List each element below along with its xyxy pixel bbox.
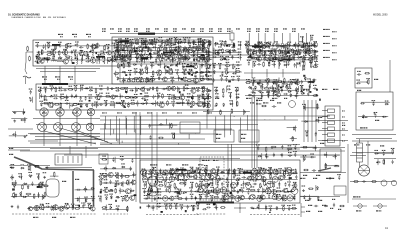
value label	[227, 31, 231, 32]
transistor Q28	[192, 78, 198, 83]
transistor Q27	[161, 77, 167, 82]
inductor L20	[143, 58, 149, 61]
value label	[287, 175, 291, 176]
diode D104	[38, 183, 40, 187]
wire	[226, 63, 228, 69]
wire	[146, 68, 148, 74]
node N181	[235, 175, 236, 176]
wire	[121, 141, 123, 143]
value label	[199, 181, 203, 182]
wire	[11, 118, 27, 120]
wire	[233, 42, 235, 48]
value label	[290, 79, 294, 80]
value label	[263, 179, 267, 180]
value label	[131, 100, 135, 101]
value label	[232, 187, 236, 188]
capacitor C390	[295, 175, 297, 179]
value label	[98, 195, 102, 196]
wire	[230, 93, 232, 99]
value label	[226, 182, 230, 183]
wire	[115, 71, 117, 77]
wire	[42, 102, 209, 104]
capacitor C269	[288, 43, 290, 47]
value label	[274, 31, 278, 32]
value label	[342, 125, 345, 127]
value label	[120, 54, 124, 55]
capacitor C348	[18, 176, 22, 178]
wire	[322, 116, 328, 118]
resistor R151	[158, 47, 160, 53]
capacitor C202	[185, 87, 189, 89]
node N154	[366, 82, 367, 83]
wire	[215, 88, 217, 94]
wire	[268, 89, 270, 95]
wire	[258, 33, 260, 44]
node N199	[157, 191, 158, 192]
value label	[374, 112, 378, 113]
capacitor C386	[236, 177, 240, 179]
node N192	[211, 185, 212, 186]
node N119	[262, 86, 263, 87]
wire	[20, 150, 345, 152]
wire	[37, 51, 126, 53]
value label	[147, 112, 152, 114]
transistor Q6	[78, 52, 83, 56]
transistor Q70	[130, 180, 136, 185]
transistor Q36	[184, 56, 190, 61]
diode D18	[122, 79, 126, 81]
wire	[45, 44, 47, 50]
resistor R295	[174, 183, 176, 189]
value label	[134, 94, 138, 95]
node N69	[197, 89, 198, 90]
capacitor C357	[122, 174, 124, 178]
wire	[307, 100, 309, 142]
capacitor C319	[288, 57, 290, 61]
capacitor C206	[53, 97, 57, 99]
tuning coil can	[38, 123, 47, 132]
capacitor C153	[134, 71, 138, 73]
capacitor C376	[238, 170, 240, 174]
value label	[253, 168, 257, 169]
diode D75	[303, 52, 307, 54]
wire	[212, 188, 214, 194]
resistor R216	[267, 50, 273, 52]
wire	[114, 50, 207, 52]
transformer T6	[260, 169, 266, 175]
wire	[247, 59, 315, 61]
node N204	[286, 188, 287, 189]
wire	[142, 169, 144, 175]
capacitor C191	[63, 89, 67, 91]
capacitor C392	[149, 182, 151, 186]
wire	[158, 54, 160, 60]
wire	[303, 100, 305, 142]
wire	[259, 48, 261, 54]
capacitor C323	[229, 50, 231, 54]
wire	[256, 174, 258, 180]
wire	[15, 131, 17, 137]
value label	[87, 112, 92, 114]
value label	[263, 102, 268, 104]
value label	[100, 173, 104, 174]
resistor R175	[171, 97, 177, 99]
wire	[180, 57, 182, 63]
wire	[74, 66, 76, 84]
capacitor C140	[186, 57, 190, 59]
resistor R229	[269, 87, 275, 89]
value label	[100, 50, 104, 51]
capacitor C402	[288, 183, 290, 187]
capacitor C264	[221, 77, 223, 81]
node N4	[38, 52, 39, 53]
value label	[79, 100, 83, 101]
value label	[177, 39, 181, 40]
transistor Q12	[110, 57, 116, 62]
node N123	[268, 95, 269, 96]
diode D46	[203, 57, 205, 61]
capacitor C292	[301, 80, 303, 84]
resistor R156	[173, 54, 175, 60]
value label	[105, 194, 109, 195]
value label	[362, 117, 367, 119]
transistor Q75	[174, 168, 179, 172]
wire	[139, 112, 141, 202]
node N130	[275, 52, 276, 53]
value label	[63, 49, 67, 50]
value label	[192, 51, 196, 52]
wire	[245, 95, 318, 97]
diode D9	[119, 54, 123, 56]
diode D83	[296, 90, 298, 94]
value label	[293, 187, 297, 188]
transistor Q34	[160, 54, 166, 59]
diode D92	[223, 103, 225, 107]
capacitor C207	[65, 97, 69, 99]
capacitor C265	[225, 77, 227, 81]
value label	[266, 91, 270, 92]
resistor R116	[158, 40, 164, 42]
value label	[99, 85, 103, 86]
diode D63	[290, 82, 294, 84]
resistor R130	[177, 51, 183, 53]
transistor Q18	[126, 56, 131, 60]
node N128	[270, 43, 271, 44]
resistor R225	[245, 82, 251, 84]
capacitor C242	[159, 123, 163, 125]
tuning coil can	[72, 123, 81, 132]
value label	[139, 61, 143, 62]
section label bar	[186, 66, 194, 68]
wire	[45, 87, 47, 93]
wire	[156, 175, 158, 181]
resistor R195	[29, 56, 31, 62]
transistor Q47	[158, 103, 164, 108]
wire	[272, 56, 274, 62]
value label	[301, 56, 305, 57]
transistor Q9	[39, 59, 44, 63]
node N188	[170, 185, 171, 186]
wire	[64, 154, 340, 156]
value label	[247, 31, 251, 32]
value label	[140, 47, 144, 48]
diode D93	[229, 103, 233, 105]
node N95	[227, 51, 228, 52]
transistor Q86	[260, 177, 267, 182]
value label	[68, 43, 72, 44]
capacitor C247	[225, 40, 227, 44]
value label	[179, 173, 183, 174]
wire	[75, 189, 95, 191]
diode D16	[200, 72, 204, 74]
capacitor C102	[59, 43, 61, 47]
terminal 5	[328, 133, 335, 136]
wire	[215, 117, 217, 143]
value label	[323, 29, 330, 31]
wire	[169, 123, 171, 129]
value label	[70, 79, 73, 80]
resistor R176	[175, 98, 181, 100]
wire	[201, 93, 203, 99]
value label	[186, 47, 190, 48]
diode D62	[272, 81, 276, 83]
resistor R275	[124, 176, 130, 178]
wire	[8, 147, 345, 149]
diode D79	[252, 82, 254, 86]
capacitor C249	[207, 51, 211, 53]
node N169	[267, 156, 268, 157]
resistor R263	[364, 72, 370, 74]
wire	[197, 46, 199, 52]
value label	[141, 40, 145, 41]
resistor R304	[250, 189, 256, 191]
wire	[248, 33, 250, 44]
transistor Q74	[129, 195, 135, 200]
value label	[200, 75, 204, 76]
transistor Q26	[187, 70, 193, 75]
wire	[294, 126, 296, 132]
value label	[166, 164, 171, 166]
wire	[182, 56, 184, 62]
wire	[100, 142, 190, 144]
resistor R242	[310, 56, 312, 62]
capacitor C331	[281, 88, 283, 92]
value label	[236, 28, 240, 30]
resistor R103	[87, 44, 89, 50]
value label	[62, 181, 66, 183]
diode D24	[192, 41, 194, 45]
value label	[126, 28, 130, 30]
capacitor C171	[121, 49, 125, 51]
resistor R121	[170, 46, 172, 52]
capacitor C231	[156, 101, 158, 105]
capacitor C189	[50, 87, 52, 91]
node N6	[81, 51, 82, 52]
resistor R237	[250, 57, 256, 59]
node N76	[155, 96, 156, 97]
value label	[142, 168, 146, 169]
capacitor C136	[121, 58, 123, 62]
value label	[185, 84, 189, 85]
node N158	[30, 176, 31, 177]
value label	[252, 92, 256, 93]
capacitor C412	[237, 190, 239, 194]
value label	[153, 167, 157, 168]
node N42	[191, 70, 192, 71]
node N39	[125, 72, 126, 73]
resistor R251	[207, 109, 209, 115]
capacitor C334	[227, 88, 231, 90]
value label	[300, 85, 304, 86]
value label	[151, 76, 155, 77]
wire	[322, 122, 328, 124]
resistor R170	[60, 97, 66, 99]
wire	[243, 181, 245, 187]
capacitor C280	[299, 56, 303, 58]
resistor R185	[110, 104, 116, 106]
capacitor C192	[81, 86, 83, 90]
wire	[295, 93, 297, 99]
value label	[197, 95, 201, 96]
value label	[276, 84, 280, 85]
diode D56	[314, 50, 318, 52]
wire	[262, 84, 264, 90]
diode D11	[193, 58, 195, 62]
transistor Q16	[172, 50, 178, 55]
inductor L14	[127, 44, 133, 47]
thick vertical lead	[93, 170, 95, 205]
wire	[122, 58, 124, 64]
wire	[76, 130, 112, 144]
value label	[180, 94, 184, 95]
value label	[220, 75, 224, 76]
value label	[284, 98, 287, 100]
diode D96	[385, 103, 389, 105]
capacitor C313	[252, 51, 254, 55]
diode D53	[266, 46, 270, 48]
capacitor C316	[313, 51, 317, 53]
wire	[239, 117, 241, 142]
value label	[99, 179, 103, 180]
wire	[159, 169, 161, 175]
node N136	[273, 59, 274, 60]
resistor R177	[202, 93, 204, 99]
node N172	[165, 170, 166, 171]
value label	[257, 41, 261, 42]
diode D61	[297, 63, 301, 65]
wire	[184, 181, 186, 187]
value label	[267, 60, 271, 61]
node N63	[86, 88, 87, 89]
node N112	[286, 56, 287, 57]
value label	[235, 87, 239, 88]
value label	[214, 87, 218, 88]
diode D113	[103, 176, 107, 178]
value label	[287, 48, 291, 49]
wire	[140, 69, 142, 75]
value label	[197, 38, 201, 39]
value label	[106, 93, 110, 94]
transformer T24	[291, 188, 298, 195]
wire	[41, 95, 211, 97]
capacitor C279	[288, 56, 290, 60]
node N164	[120, 176, 121, 177]
capacitor C232	[172, 103, 174, 107]
node N177	[175, 177, 176, 178]
node N153	[374, 113, 375, 114]
resistor R202	[208, 64, 210, 70]
wire	[264, 118, 266, 121]
value label	[201, 55, 205, 56]
wire	[97, 43, 99, 49]
capacitor C226	[99, 104, 103, 106]
node N111	[275, 57, 276, 58]
value label	[149, 40, 153, 41]
wire	[59, 108, 61, 136]
wire	[254, 97, 256, 168]
value label	[284, 167, 288, 168]
diode D110	[104, 167, 108, 169]
resistor R249	[303, 65, 305, 71]
wire	[235, 69, 237, 75]
transistor Q78	[256, 168, 262, 173]
value label	[126, 45, 130, 46]
value label	[175, 69, 179, 70]
node N203	[211, 190, 212, 191]
wire	[12, 184, 47, 186]
node N135	[266, 60, 267, 61]
capacitor C150	[200, 63, 204, 65]
node N149	[238, 88, 239, 89]
capacitor C354	[120, 159, 124, 161]
transformer T14	[255, 174, 261, 180]
capacitor C164	[119, 43, 123, 45]
resistor R223	[303, 61, 305, 67]
transformer T10	[169, 176, 175, 182]
diode D84	[304, 77, 306, 81]
value label	[366, 78, 370, 79]
capacitor C403	[143, 190, 145, 194]
wire	[268, 92, 270, 98]
node N47	[150, 43, 151, 44]
wire	[297, 43, 299, 49]
node N53	[198, 49, 199, 50]
wire	[182, 100, 184, 106]
transformer T21	[214, 188, 221, 195]
transistor Q21	[192, 64, 197, 68]
wire	[79, 85, 81, 91]
value label	[125, 42, 129, 43]
transformer T17	[246, 183, 251, 188]
value label	[283, 54, 287, 55]
resistor R133	[160, 56, 162, 62]
capacitor C380	[148, 176, 152, 178]
wire	[280, 50, 282, 56]
diode D51	[238, 77, 240, 81]
transformer T20	[202, 189, 208, 195]
wire	[105, 174, 107, 180]
value label	[192, 112, 197, 114]
value label	[97, 57, 101, 58]
inductor L8	[76, 59, 79, 65]
wire	[148, 46, 150, 52]
wire	[251, 97, 253, 168]
terminal 4	[328, 127, 335, 130]
value label	[36, 57, 40, 58]
wire	[117, 139, 119, 142]
wire	[203, 64, 242, 66]
diode D43	[233, 43, 235, 47]
